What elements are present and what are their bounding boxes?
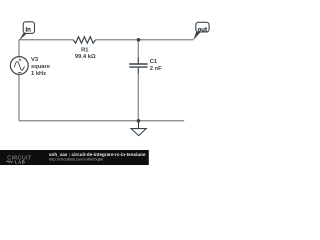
svg-text:in: in: [26, 27, 32, 33]
wire: top horizontal from R1 to node out: [95, 39, 193, 41]
svg-text:square: square: [31, 64, 51, 70]
wire: bottom horizontal: [19, 120, 184, 122]
wire: capacitor branch lower: [137, 73, 139, 121]
svg-text:R1: R1: [81, 48, 89, 54]
junction node bottom (C1 to bottom wire): [137, 119, 141, 123]
svg-text:2 nF: 2 nF: [150, 66, 162, 72]
voltage source V3: [10, 57, 28, 75]
svg-text:http://circuitlab.com/c4hm5q8k: http://circuitlab.com/c4hm5q8k: [49, 157, 103, 162]
capacitor C1: [129, 58, 147, 74]
svg-text:LAB: LAB: [15, 160, 26, 165]
watermark logo resistor zigzag: [6, 161, 14, 163]
svg-text:out: out: [198, 27, 207, 33]
resistor R1: [73, 37, 95, 44]
wire: top horizontal from node in to R1: [19, 39, 73, 41]
node out flag: [193, 22, 209, 40]
junction node top (C1 to top wire): [137, 38, 141, 42]
svg-text:1 kHz: 1 kHz: [31, 71, 46, 77]
watermark bar: [0, 150, 149, 165]
node in flag: [19, 22, 35, 41]
svg-text:99.4 kΩ: 99.4 kΩ: [75, 54, 96, 60]
wire: left vertical through V3: [18, 40, 20, 121]
ground: [131, 121, 146, 136]
svg-text:C1: C1: [150, 59, 158, 65]
svg-text:V3: V3: [31, 57, 39, 63]
wire: capacitor branch upper: [137, 40, 139, 58]
